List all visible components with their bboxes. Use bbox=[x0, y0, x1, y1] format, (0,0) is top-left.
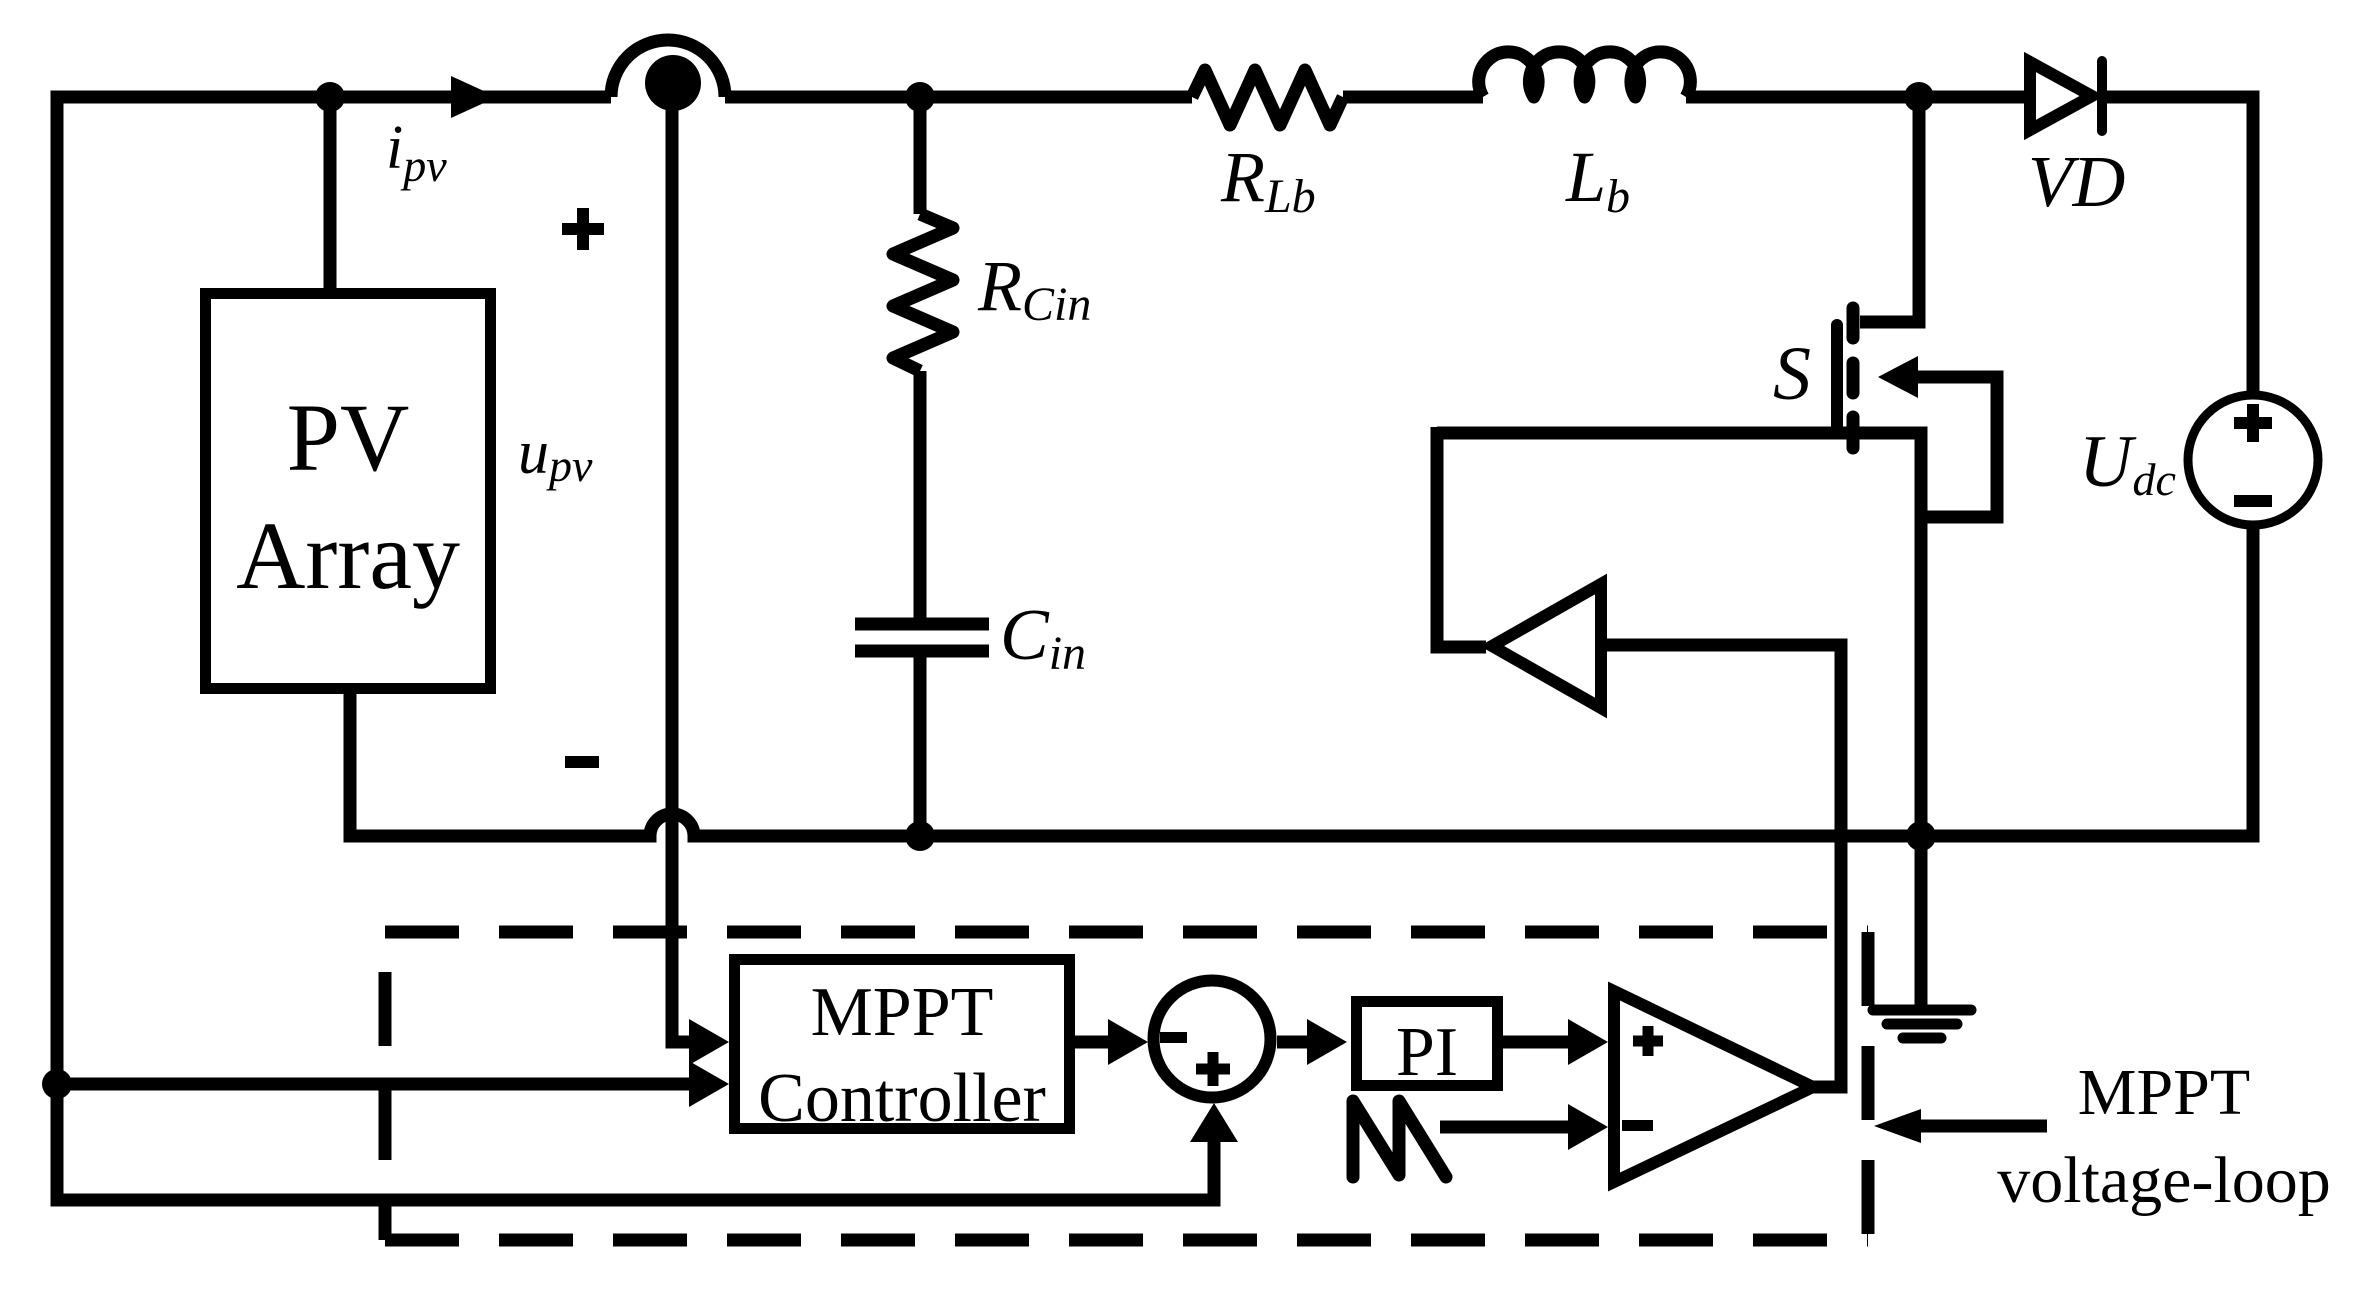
wire top rail between R_Lb and L_b bbox=[1343, 91, 1483, 104]
arrowhead i_pv direction on top rail bbox=[451, 76, 497, 118]
wire top rail from diode cathode to right edge corner bbox=[2107, 97, 2253, 395]
source U_dc circle bbox=[2188, 395, 2318, 525]
svg-text:PI: PI bbox=[1396, 1014, 1458, 1091]
box PV Array bbox=[206, 294, 491, 689]
ground symbol bar 2 bbox=[1887, 1019, 1957, 1030]
node junction dot u_pv tap on left wire bbox=[42, 1069, 72, 1099]
diode VD triangle bbox=[2030, 62, 2092, 130]
arrowhead MPPT output into summing junction bbox=[1108, 1019, 1148, 1065]
wire summing junction to PI bbox=[1277, 1036, 1310, 1049]
wire PV array positive lead bbox=[324, 97, 337, 293]
svg-text:VD: VD bbox=[2028, 141, 2125, 222]
wire PV array negative lead, bottom rail with hop over sensor wire, and right edge lower segment bbox=[350, 525, 2253, 836]
svg-text:PV: PV bbox=[287, 384, 410, 491]
label - inside U_dc bbox=[2234, 495, 2272, 507]
driver buffer triangle bbox=[1492, 584, 1601, 708]
wire PI to comparator plus input bbox=[1503, 1036, 1568, 1049]
svg-text:S: S bbox=[1773, 332, 1811, 416]
wire MPPT controller output to summing junction bbox=[1075, 1036, 1110, 1049]
wire MOSFET body to source loop bbox=[1916, 377, 1997, 517]
label - inside comparator bbox=[1622, 1120, 1653, 1131]
comparator triangle bbox=[1614, 991, 1813, 1182]
node junction dot PV positive tap bbox=[315, 82, 345, 112]
arrowhead MOSFET body arrow bbox=[1878, 356, 1918, 398]
transistor S drain contact bar bbox=[1847, 308, 1860, 338]
svg-text:Array: Array bbox=[236, 502, 460, 609]
wire driver input from comparator output bbox=[1601, 645, 1841, 1087]
wire drain from top rail to MOSFET bbox=[1860, 97, 1919, 322]
svg-text:MPPT: MPPT bbox=[2078, 1056, 2250, 1129]
box PI bbox=[1357, 1002, 1498, 1086]
svg-text:MPPT: MPPT bbox=[811, 974, 994, 1051]
summing junction circle bbox=[1154, 981, 1271, 1098]
box MPPT Controller bbox=[735, 960, 1070, 1129]
ground symbol bar 1 bbox=[1873, 1005, 1971, 1016]
inductor L_b bbox=[1479, 52, 1691, 97]
label - inside summing junction bbox=[1160, 1032, 1187, 1043]
arrowhead into comparator plus input bbox=[1568, 1019, 1608, 1065]
wire u_pv sense line to MPPT controller bbox=[57, 1078, 692, 1091]
svg-text:Controller: Controller bbox=[758, 1060, 1046, 1137]
transistor S source contact bar bbox=[1847, 417, 1860, 448]
resistor R_Lb bbox=[1192, 70, 1343, 125]
dashed box left edge bbox=[379, 932, 392, 1240]
label + inside comparator bbox=[1633, 1026, 1663, 1056]
resistor R_Cin bbox=[893, 214, 953, 371]
label - (u_pv negative polarity) bbox=[565, 756, 599, 768]
wire current sensor tap down to MPPT controller i_pv input bbox=[672, 104, 692, 1042]
capacitor C_in top plate bbox=[855, 618, 989, 631]
label + (u_pv polarity) bbox=[562, 208, 604, 250]
sawtooth carrier symbol bbox=[1353, 1101, 1446, 1177]
wire MPPT voltage-loop pointer line bbox=[1919, 1120, 2047, 1133]
dashed box right edge bbox=[1862, 932, 1875, 1240]
node junction dot C_in bottom rail bbox=[905, 821, 935, 851]
wire top rail left segment, left edge and u_pv-ref feedback line to summing junction bbox=[57, 97, 1214, 1200]
wire C_in to bottom rail bbox=[914, 657, 927, 836]
node junction dot R_Cin branch top bbox=[905, 82, 935, 112]
wire gate and source horizontal with source down to bottom rail bbox=[1437, 433, 1921, 836]
arrowhead into PI box bbox=[1307, 1019, 1347, 1065]
label + inside summing junction bbox=[1196, 1052, 1230, 1086]
wire top rail segment sensor to R_Lb bbox=[725, 91, 1192, 104]
transistor S gate bar bbox=[1831, 325, 1843, 431]
dashed box top edge bbox=[385, 926, 1868, 939]
wire current-sensor hop arc on top rail bbox=[611, 40, 725, 97]
wire sawtooth to comparator minus input bbox=[1440, 1121, 1568, 1134]
dashed box bottom edge bbox=[385, 1234, 1868, 1247]
wire between R_Cin and C_in bbox=[914, 371, 927, 618]
arrowhead u_pv into MPPT controller bbox=[689, 1061, 729, 1107]
arrowhead i_pv into MPPT controller bbox=[689, 1019, 729, 1065]
arrowhead into comparator minus input bbox=[1568, 1104, 1608, 1150]
wire gate drive vertical and stub to driver output bbox=[1437, 427, 1486, 647]
label + inside U_dc bbox=[2234, 404, 2272, 442]
wire top rail between L_b and diode VD bbox=[1686, 91, 2024, 104]
node junction dot source at bottom rail bbox=[1906, 821, 1936, 851]
arrowhead MPPT voltage-loop pointer bbox=[1874, 1109, 1921, 1143]
diode VD cathode bar bbox=[2097, 61, 2107, 131]
transistor S body contact bar bbox=[1847, 363, 1860, 393]
svg-text:voltage-loop: voltage-loop bbox=[1997, 1144, 2331, 1217]
node junction dot drain branch on top rail bbox=[1904, 82, 1934, 112]
current sensor dot bbox=[645, 55, 701, 111]
arrowhead feedback into summing junction bottom bbox=[1190, 1103, 1238, 1142]
wire R_Cin branch upper bbox=[914, 100, 927, 214]
ground wire below source junction bbox=[1915, 836, 1928, 1006]
capacitor C_in bottom plate bbox=[855, 645, 989, 658]
ground symbol bar 3 bbox=[1903, 1033, 1941, 1044]
